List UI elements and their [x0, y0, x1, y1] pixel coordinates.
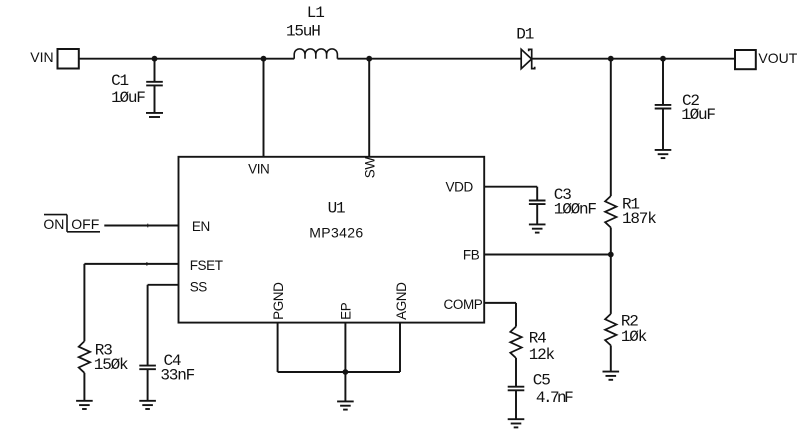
wire C2 top lead	[662, 59, 664, 105]
resistor R1	[605, 196, 616, 227]
value 12k	[529, 346, 555, 364]
svg-text:MP3426: MP3426	[309, 225, 363, 241]
capacitor C2	[655, 105, 672, 109]
wire EP pin drop	[344, 322, 346, 372]
label VIN	[30, 49, 53, 65]
svg-text:1Øk: 1Øk	[621, 328, 647, 346]
node junction C1	[152, 56, 158, 62]
pin name SW	[363, 157, 378, 179]
svg-text:1ØuF: 1ØuF	[681, 106, 715, 124]
capacitor C5	[508, 387, 525, 391]
wire D1 cathode to VOUT	[532, 58, 735, 60]
svg-text:C1: C1	[111, 72, 128, 90]
label C2	[682, 92, 699, 110]
wire C1 top lead	[154, 59, 156, 82]
svg-text:OFF: OFF	[71, 216, 99, 232]
ground EP	[337, 401, 354, 409]
pin name EN	[192, 219, 210, 234]
pin name FB	[463, 247, 480, 262]
svg-text:SS: SS	[190, 279, 208, 294]
svg-text:D1: D1	[516, 25, 533, 43]
pin name COMP	[444, 297, 483, 312]
node junction EP ground	[343, 369, 349, 375]
value 10uF C1	[111, 89, 145, 107]
svg-text:15Øk: 15Øk	[94, 356, 128, 374]
port VOUT terminal	[735, 50, 756, 69]
ground R2	[603, 372, 620, 380]
label R1	[622, 195, 639, 213]
value 100nF	[554, 200, 597, 218]
wire ON-OFF to EN	[104, 225, 178, 227]
svg-text:FSET: FSET	[190, 258, 223, 273]
pin name FSET	[190, 258, 223, 273]
wire R3 to ground	[83, 373, 85, 401]
pin name SS	[190, 279, 208, 294]
value 10k	[621, 328, 647, 346]
wire COMP pin	[484, 302, 516, 304]
svg-text:C5: C5	[533, 372, 550, 390]
wire VDD pin	[484, 186, 537, 188]
value 187k	[622, 210, 656, 228]
wire VIN to L1	[79, 58, 294, 60]
capacitor C4	[139, 366, 156, 370]
svg-text:L1: L1	[307, 4, 324, 22]
resistor R3	[79, 341, 90, 373]
wire rail to SW pin	[368, 59, 370, 157]
svg-text:FB: FB	[463, 247, 480, 262]
resistor R4	[510, 327, 521, 359]
svg-text:33nF: 33nF	[160, 366, 194, 384]
wire R1 to FB node	[610, 228, 612, 255]
ground C3	[529, 224, 546, 232]
wire SS pin	[148, 284, 179, 286]
tick EN wire segment join	[147, 224, 149, 228]
svg-text:VDD: VDD	[446, 180, 474, 195]
value 150k	[94, 356, 128, 374]
wire FB pin	[484, 254, 611, 256]
svg-text:AGND: AGND	[394, 282, 409, 320]
label R2	[621, 313, 638, 331]
svg-text:U1: U1	[328, 200, 345, 218]
ground C1	[146, 113, 163, 117]
svg-text:SW: SW	[363, 157, 378, 179]
svg-text:12k: 12k	[529, 346, 555, 364]
label VOUT	[758, 50, 797, 66]
wire R4 to C5	[515, 358, 517, 387]
value 4.7nF	[536, 389, 573, 407]
label L1	[307, 4, 324, 22]
wire FB node to R2	[610, 255, 612, 314]
wire C3 to ground	[536, 204, 538, 224]
wire rail to R1	[610, 59, 612, 196]
ground C2	[655, 150, 672, 158]
wire FSET pin	[84, 263, 178, 265]
refdes U1	[328, 200, 345, 218]
wire C2 bottom lead	[662, 109, 664, 150]
wire C1 bottom lead	[154, 85, 156, 113]
ground C5	[508, 419, 525, 427]
overline ON	[44, 214, 67, 216]
wire AGND pin drop	[399, 322, 401, 372]
label R4	[529, 330, 546, 348]
wire C5 to ground	[515, 390, 517, 419]
wire EP to ground	[344, 372, 346, 401]
value MP3426	[309, 225, 363, 241]
wire C4 to ground	[147, 369, 149, 401]
underline OFF	[67, 231, 100, 233]
node junction VIN pin	[261, 56, 267, 62]
inductor L1	[294, 49, 337, 59]
wire R2 to ground	[610, 345, 612, 371]
svg-text:187k: 187k	[622, 210, 656, 228]
wire ground bus	[278, 371, 400, 373]
port VIN terminal	[58, 49, 79, 69]
svg-text:1ØØnF: 1ØØnF	[554, 200, 597, 218]
svg-text:PGND: PGND	[271, 282, 286, 320]
ground C4	[139, 401, 156, 409]
svg-text:R4: R4	[529, 330, 546, 348]
diode D1 schottky cathode bar	[529, 49, 535, 68]
label C4	[164, 352, 181, 370]
pin name EP	[338, 302, 353, 320]
wire L1 to D1 anode	[337, 58, 521, 60]
svg-text:ON: ON	[43, 216, 64, 232]
label D1	[516, 25, 533, 43]
svg-text:COMP: COMP	[444, 297, 483, 312]
svg-text:EN: EN	[192, 219, 210, 234]
label C1	[111, 72, 128, 90]
value 15uH	[286, 23, 320, 41]
resistor R2	[605, 314, 616, 346]
capacitor C3	[529, 201, 546, 205]
pin name VDD	[446, 180, 474, 195]
svg-text:VOUT: VOUT	[758, 50, 797, 66]
node junction FB	[608, 252, 614, 258]
pin name AGND	[394, 282, 409, 320]
wire SS down to C4	[147, 285, 149, 366]
wire COMP down to R4	[515, 303, 517, 327]
wire FSET down to R3	[83, 264, 85, 341]
label C5	[533, 372, 550, 390]
label C3	[554, 186, 571, 204]
wire VDD down to C3	[536, 187, 538, 201]
svg-text:VIN: VIN	[248, 161, 269, 176]
svg-text:1ØuF: 1ØuF	[111, 89, 145, 107]
label ON-OFF	[43, 216, 99, 232]
divider ON-OFF	[66, 215, 68, 232]
pin name PGND	[271, 282, 286, 320]
node junction SW pin	[366, 56, 372, 62]
svg-text:4.7nF: 4.7nF	[536, 389, 573, 407]
svg-text:15uH: 15uH	[286, 23, 320, 41]
ground R3	[76, 401, 93, 409]
wire rail to VIN pin	[263, 59, 265, 157]
op-amp U1 MP3426 body	[179, 157, 485, 323]
value 10uF C2	[681, 106, 715, 124]
svg-text:VIN: VIN	[30, 49, 53, 65]
value 33nF	[160, 366, 194, 384]
node junction C2 branch	[660, 56, 666, 62]
label R3	[95, 342, 112, 360]
diode D1 triangle	[521, 49, 531, 68]
pin name VIN	[248, 161, 269, 176]
capacitor C1	[146, 82, 163, 86]
node junction R1 branch	[608, 56, 614, 62]
wire PGND pin drop	[277, 322, 279, 372]
tick FSET wire segment join	[146, 262, 148, 266]
svg-text:EP: EP	[338, 302, 353, 320]
